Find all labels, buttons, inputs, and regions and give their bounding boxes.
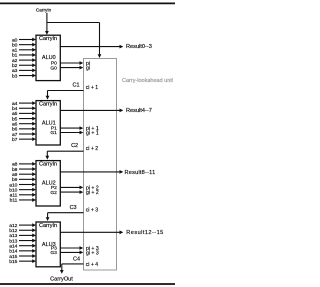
input a12	[9, 223, 36, 229]
svg-text:b0: b0	[12, 42, 18, 48]
wire Result output of ALU0	[60, 45, 123, 49]
svg-text:C4: C4	[73, 256, 80, 262]
wire G2 to lookahead unit	[60, 190, 83, 194]
svg-text:b8: b8	[12, 167, 18, 173]
svg-text:a3: a3	[12, 68, 18, 74]
input b6	[12, 127, 36, 133]
wire Result output of ALU1	[60, 109, 123, 113]
svg-text:G1: G1	[50, 130, 57, 136]
wire G1 to lookahead unit	[60, 131, 83, 135]
svg-text:a7: a7	[12, 132, 18, 138]
input a5	[12, 111, 36, 117]
wire G0 to lookahead unit	[60, 66, 83, 70]
svg-text:CarryOut: CarryOut	[50, 276, 73, 282]
wire G3 to lookahead unit	[60, 251, 83, 255]
wire CarryIn vertical into ALU0	[45, 13, 49, 35]
ALU ALU2 box	[36, 161, 60, 206]
input b0	[12, 42, 36, 48]
svg-text:gi: gi	[86, 66, 90, 72]
svg-text:a15: a15	[9, 254, 17, 260]
svg-text:ALU0: ALU0	[42, 55, 56, 61]
svg-text:a11: a11	[10, 193, 18, 199]
svg-text:C1: C1	[72, 82, 79, 88]
wire P2 to lookahead unit	[60, 186, 83, 190]
input b13	[9, 238, 36, 244]
svg-text:a13: a13	[9, 233, 17, 239]
svg-text:b2: b2	[12, 63, 18, 69]
svg-text:a4: a4	[12, 101, 18, 107]
ALU ALU0 box	[36, 35, 60, 80]
svg-text:a5: a5	[12, 111, 18, 117]
input b7	[12, 137, 36, 143]
input a15	[9, 254, 36, 260]
svg-text:CarryIn: CarryIn	[39, 102, 57, 108]
svg-text:Carry-lookahead unit: Carry-lookahead unit	[122, 78, 174, 84]
input b8	[12, 167, 36, 173]
input a4	[12, 101, 36, 107]
wire P3 to lookahead unit	[60, 246, 83, 250]
input b5	[12, 116, 36, 122]
input b9	[12, 177, 36, 183]
input b4	[12, 106, 36, 112]
input b12	[9, 228, 36, 234]
svg-text:a0: a0	[12, 37, 18, 43]
input a7	[12, 132, 36, 138]
svg-text:b4: b4	[12, 106, 18, 112]
carry-lookahead unit box	[84, 59, 117, 271]
svg-text:gi + 1: gi + 1	[86, 130, 99, 136]
bottom border rule	[0, 283, 175, 285]
svg-text:Result4--7: Result4--7	[126, 108, 152, 114]
input a14	[9, 243, 36, 249]
svg-text:CarryIn: CarryIn	[39, 36, 57, 42]
svg-text:G0: G0	[50, 65, 57, 71]
wire P0 to lookahead unit	[60, 61, 83, 65]
wire CarryIn branch to carry-lookahead unit	[47, 23, 102, 59]
svg-text:b1: b1	[12, 53, 18, 59]
svg-text:CarryIn: CarryIn	[36, 8, 52, 13]
input b14	[9, 249, 36, 255]
svg-text:gi + 3: gi + 3	[86, 250, 99, 256]
wire C1 from lookahead unit to next ALU CarryIn	[46, 91, 84, 100]
input b15	[9, 259, 36, 265]
svg-text:G3: G3	[50, 250, 57, 256]
svg-text:a1: a1	[12, 48, 18, 54]
svg-text:ci + 3: ci + 3	[86, 207, 99, 213]
svg-text:a2: a2	[12, 58, 18, 64]
input a8	[12, 162, 36, 168]
input a13	[9, 233, 36, 239]
svg-text:b15: b15	[9, 259, 17, 265]
input a0	[12, 37, 36, 43]
wire Result output of ALU3	[60, 230, 123, 234]
svg-text:ci + 1: ci + 1	[86, 85, 99, 91]
wire C3 from lookahead unit to next ALU CarryIn	[46, 213, 84, 221]
input a2	[12, 58, 36, 64]
ALU ALU1 box	[36, 101, 60, 145]
svg-text:C3: C3	[70, 205, 77, 211]
svg-text:Result12--15: Result12--15	[126, 230, 163, 236]
wire P1 to lookahead unit	[60, 126, 83, 130]
svg-text:a6: a6	[12, 121, 18, 127]
wire Result output of ALU2	[60, 170, 123, 174]
svg-text:CarryIn: CarryIn	[39, 223, 57, 229]
svg-text:b3: b3	[12, 73, 18, 79]
svg-text:gi + 2: gi + 2	[86, 190, 99, 196]
svg-text:b13: b13	[9, 238, 17, 244]
svg-text:CarryIn: CarryIn	[39, 162, 57, 168]
svg-text:C2: C2	[71, 143, 78, 149]
svg-text:ci + 2: ci + 2	[86, 146, 99, 152]
input a6	[12, 121, 36, 127]
svg-text:ci + 4: ci + 4	[86, 262, 99, 268]
svg-text:b11: b11	[10, 198, 18, 204]
svg-text:a8: a8	[12, 162, 18, 168]
svg-text:b12: b12	[9, 228, 17, 234]
wire C2 from lookahead unit to next ALU CarryIn	[45, 151, 83, 159]
svg-text:ALU1: ALU1	[42, 121, 56, 127]
svg-text:a9: a9	[12, 172, 18, 178]
input a3	[12, 68, 36, 74]
top border rule	[0, 2, 175, 4]
svg-text:b7: b7	[12, 137, 18, 143]
input b11	[10, 198, 36, 204]
input a10	[9, 182, 36, 188]
input a11	[10, 193, 36, 199]
svg-text:Result0--3: Result0--3	[126, 44, 152, 50]
svg-text:Result8--11: Result8--11	[125, 170, 156, 176]
ALU ALU3 box	[36, 222, 60, 267]
input b1	[12, 53, 36, 59]
input b3	[12, 73, 36, 79]
input a1	[12, 48, 36, 54]
input a9	[12, 172, 36, 178]
svg-text:b14: b14	[9, 249, 17, 255]
svg-text:b9: b9	[12, 177, 18, 183]
svg-text:b5: b5	[12, 116, 18, 122]
input b2	[12, 63, 36, 69]
svg-text:a14: a14	[9, 243, 17, 249]
svg-text:G2: G2	[50, 190, 57, 196]
svg-text:a12: a12	[9, 223, 17, 229]
svg-text:b6: b6	[12, 127, 18, 133]
wire C4 to CarryOut	[60, 264, 84, 274]
svg-text:b10: b10	[9, 187, 17, 193]
input b10	[9, 187, 36, 193]
svg-text:a10: a10	[9, 182, 17, 188]
